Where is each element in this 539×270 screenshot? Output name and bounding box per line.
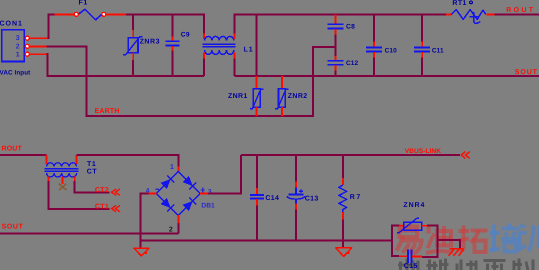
- pin ZNR2 bottom: [281, 107, 283, 116]
- wire pin1 to bottom rail: [47, 54, 204, 76]
- wire ZNR3 top: [132, 14, 134, 30]
- port CT2: [112, 189, 120, 195]
- wire earth riser: [313, 47, 336, 117]
- svg-text:C12: C12: [346, 60, 359, 67]
- bottom rail right segment: [234, 75, 539, 77]
- svg-text:3: 3: [208, 189, 212, 196]
- svg-text:1: 1: [16, 52, 20, 59]
- wire C13 top: [295, 154, 297, 182]
- wire R7 ground drop: [342, 240, 344, 247]
- ground DB1: [134, 248, 149, 256]
- svg-text:1: 1: [170, 164, 174, 171]
- junction tick: [123, 14, 126, 16]
- svg-text:CON1: CON1: [0, 20, 23, 27]
- wire ground rail: [141, 239, 392, 241]
- pin R7 top: [342, 178, 344, 185]
- pin C8 top: [334, 15, 336, 24]
- wire C12 bottom: [334, 71, 336, 77]
- svg-text:C11: C11: [432, 48, 444, 55]
- varistor ZNR4: [404, 222, 422, 230]
- svg-text:RT1: RT1: [452, 0, 466, 7]
- wire C14 bottom: [256, 206, 258, 241]
- pin ZNR1 bottom: [256, 107, 258, 116]
- wire ZNR4 box right: [422, 226, 460, 257]
- top rail left segment: [125, 14, 204, 16]
- pin DB1 pin4: [148, 193, 157, 195]
- wire C10 bottom: [373, 58, 375, 77]
- wire C11 bottom: [421, 58, 423, 77]
- resistor R7: [339, 185, 347, 212]
- svg-text:CT: CT: [87, 169, 98, 176]
- pin DB1 pin2: [177, 215, 179, 223]
- label minus: [155, 188, 159, 190]
- varistor ZNR1: [253, 89, 260, 107]
- capacitor C10: [366, 46, 382, 48]
- pin RT1 left: [446, 14, 452, 16]
- svg-text:CT2: CT2: [95, 187, 109, 194]
- pin ZNR2 top: [281, 76, 283, 89]
- CON1 pin 2 stub: [29, 45, 47, 47]
- pin T1 primary right: [76, 155, 78, 164]
- pin RT1 right: [486, 14, 494, 16]
- pad pin2: [25, 44, 29, 48]
- wire pin3 to top rail: [48, 15, 55, 39]
- pin DB1 pin3: [200, 193, 208, 195]
- svg-text:ZNR1: ZNR1: [228, 93, 248, 100]
- wire ZNR4 box left: [392, 226, 400, 257]
- wire L1 bottom-right: [233, 59, 235, 77]
- pin C8 bottom: [334, 29, 336, 35]
- pin T1 primary left: [46, 155, 48, 164]
- svg-text:ZNR4: ZNR4: [403, 202, 425, 209]
- transformer T1 primary: [47, 163, 77, 167]
- wire CT2: [75, 181, 110, 193]
- varistor ZNR3: [128, 38, 138, 53]
- wire ROUT bottom: [0, 154, 47, 156]
- wire DB1 pin2 down: [177, 223, 179, 233]
- wire C11 top: [421, 14, 423, 42]
- svg-text:C9: C9: [181, 31, 190, 38]
- inductor L1 top coil: [205, 36, 234, 40]
- diode D4 bottom-right: [182, 197, 196, 211]
- wire pin2 horizontal: [47, 45, 87, 47]
- svg-text:DB1: DB1: [201, 202, 215, 209]
- pin L1 bottom-left: [203, 53, 205, 59]
- pin C11 top: [421, 42, 423, 48]
- diode D1 top-left: [160, 175, 174, 189]
- wire C14 top: [256, 154, 258, 188]
- wire SOUT line: [0, 232, 178, 234]
- wire L1 bottom-left: [203, 59, 205, 77]
- pin ZNR1 top: [256, 76, 258, 89]
- svg-text:VBUS-LINK: VBUS-LINK: [405, 148, 442, 155]
- inductor L1 bottom coil: [205, 50, 234, 54]
- svg-text:SOUT: SOUT: [2, 223, 24, 230]
- connector CON1: [2, 30, 24, 62]
- capacitor C15: [407, 249, 409, 263]
- svg-text:ROUT: ROUT: [506, 7, 535, 14]
- pin C12 bottom: [334, 65, 336, 70]
- pin ZNR3 top: [132, 30, 134, 38]
- rectifier DB1 diamond: [156, 172, 200, 216]
- wire R7 bottom: [342, 220, 344, 241]
- pin C14 top: [256, 188, 258, 195]
- svg-text:2: 2: [16, 43, 20, 50]
- wire EARTH line: [86, 115, 313, 117]
- wire C9 bottom: [172, 51, 174, 77]
- port CT1: [112, 205, 120, 211]
- pin C9 top: [172, 37, 174, 41]
- svg-text:CT1: CT1: [95, 203, 109, 210]
- pin L1 top-right: [233, 34, 235, 40]
- svg-text:2: 2: [169, 227, 173, 234]
- wire T1 to bridge top: [77, 155, 179, 166]
- svg-text:EARTH: EARTH: [95, 108, 120, 115]
- pin C15 left: [399, 255, 407, 257]
- pin C10 bottom: [373, 52, 375, 58]
- wire C9 top: [172, 14, 174, 37]
- pin R7 bottom: [342, 212, 344, 220]
- wire ZNR1 from top rail: [256, 14, 258, 81]
- capacitor C14: [250, 194, 264, 196]
- pin C14 bottom: [256, 199, 258, 206]
- pin T1 sec left: [47, 177, 49, 182]
- wire C10 top: [373, 14, 375, 42]
- pin C12 top: [334, 56, 336, 60]
- chassis ground: [449, 249, 464, 256]
- pad pin1: [25, 52, 29, 56]
- watermark yiditop training: [397, 227, 422, 255]
- capacitor C13: [295, 188, 297, 195]
- varistor ZNR2: [279, 89, 286, 107]
- transformer T1 secondary: [47, 173, 77, 177]
- transformer T1 core: [45, 168, 79, 170]
- pad pin3: [25, 36, 29, 40]
- CON1 pin 1 stub: [29, 53, 47, 55]
- no-connect X: [59, 184, 67, 191]
- svg-text:C13: C13: [305, 196, 319, 203]
- port VBUS-LINK: [461, 152, 470, 159]
- wire pin2 vertical to earth: [86, 46, 88, 117]
- wire VBUS rail: [241, 154, 460, 156]
- fuse F1: [78, 9, 101, 20]
- label plus: [200, 188, 205, 193]
- RT1 t mark: [469, 12, 480, 23]
- svg-text:3: 3: [16, 35, 20, 42]
- svg-text:F1: F1: [79, 0, 88, 7]
- pin DB1 pin1: [177, 167, 179, 173]
- wire to ROUT: [495, 14, 539, 16]
- pin C13 top: [295, 182, 297, 188]
- svg-text:C15: C15: [404, 263, 418, 270]
- svg-text:T1: T1: [87, 161, 96, 168]
- svg-text:ZNR3: ZNR3: [140, 38, 160, 45]
- wire C13 bottom: [295, 210, 297, 241]
- pin L1 bottom-right: [233, 53, 235, 59]
- pin C10 top: [373, 42, 375, 48]
- capacitor C11: [414, 46, 430, 48]
- CON1 pin 3 stub: [29, 37, 48, 39]
- svg-text:C8: C8: [346, 24, 355, 31]
- pin C13 bottom: [295, 204, 297, 210]
- pin C11 bottom: [421, 52, 423, 58]
- pin C15 right: [412, 256, 422, 258]
- svg-text:R7: R7: [350, 194, 362, 201]
- wire DB1 pin3 to VBUS: [208, 155, 241, 194]
- pin T1 sec center: [62, 177, 64, 184]
- pad F1 right: [102, 12, 106, 16]
- svg-text:VAC Input: VAC Input: [0, 70, 31, 77]
- wire ZNR3 bottom: [132, 60, 134, 76]
- inductor L1 core: [203, 43, 236, 45]
- pin L1 top-left: [203, 34, 205, 40]
- wire red fuse right: [106, 14, 125, 16]
- pin T1 sec right: [74, 177, 76, 182]
- wire L1 top-right: [233, 14, 235, 34]
- svg-text:ROUT: ROUT: [2, 146, 23, 153]
- diode D2 top-right: [182, 175, 196, 189]
- wire red to fuse left: [55, 14, 75, 16]
- svg-text:SOUT: SOUT: [515, 69, 538, 76]
- wire DB1 pin4 down: [141, 194, 149, 248]
- svg-text:C14: C14: [265, 195, 279, 202]
- pin C9 bottom: [172, 46, 174, 51]
- svg-text:L1: L1: [244, 46, 254, 53]
- capacitor C9: [166, 40, 180, 42]
- wire C8-C12 mid: [334, 35, 336, 57]
- pin ZNR3 bottom: [132, 53, 134, 60]
- pin ZNR4 right: [422, 225, 428, 227]
- wire R7 top: [342, 154, 344, 178]
- capacitor C12: [327, 60, 343, 62]
- pad F1 left: [74, 12, 78, 16]
- capacitor C8: [327, 23, 343, 25]
- svg-text:ZNR2: ZNR2: [288, 93, 308, 100]
- top rail right segment: [234, 14, 445, 16]
- ground R7: [336, 248, 352, 257]
- pin ZNR4 left: [399, 225, 404, 227]
- thermistor RT1: [451, 10, 485, 20]
- wire L1 top-left: [203, 14, 205, 34]
- diode D3 bottom-left: [160, 197, 174, 211]
- wire CT1: [48, 181, 109, 209]
- svg-text:C10: C10: [385, 48, 398, 55]
